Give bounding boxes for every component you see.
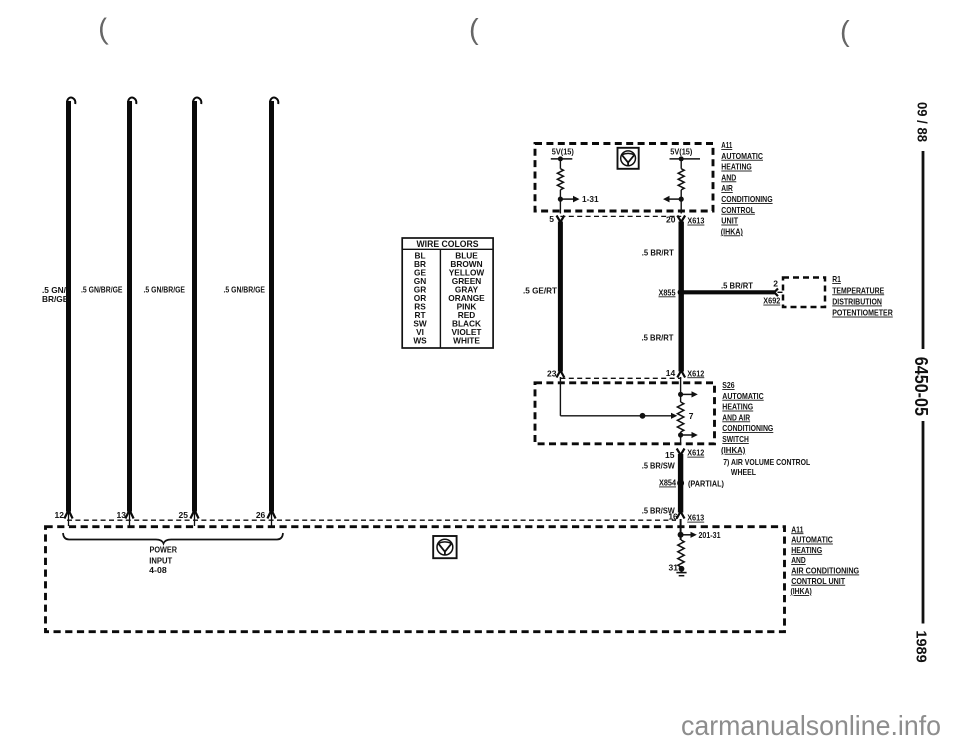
connector fork X692 (774, 289, 782, 297)
connector X854 label (659, 478, 676, 488)
svg-text:(IHKA): (IHKA) (791, 587, 813, 596)
svg-text:HEATING: HEATING (791, 546, 822, 555)
svg-text:201-31: 201-31 (699, 530, 721, 540)
margin label 6450-05 (rotated) (911, 357, 931, 416)
resistor (left branch, in A11) (557, 169, 563, 190)
svg-text:X612: X612 (687, 448, 704, 458)
svg-text:AND: AND (721, 173, 736, 182)
wire power input pin 25 (vertical .5 GN/BR/GE) (190, 98, 201, 526)
svg-text:AIR CONDITIONING: AIR CONDITIONING (791, 567, 859, 576)
svg-text:A11: A11 (791, 525, 804, 534)
wiper arrowhead into potentiometer (671, 413, 677, 419)
connector flare pin 23 (wire end) (557, 371, 565, 378)
wire .5 BR/RT horizontal to R1 (681, 290, 775, 294)
potentiometer resistor 7 (in S26) (677, 402, 683, 432)
value label .5 GE/RT (523, 285, 557, 295)
connector flare pin 15 (wire start) (677, 449, 685, 456)
svg-text:CONDITIONING: CONDITIONING (721, 195, 772, 204)
svg-text:TEMPERATURE: TEMPERATURE (832, 286, 884, 295)
svg-text:5V(15): 5V(15) (670, 148, 692, 157)
svg-text:23: 23 (547, 368, 557, 378)
resistor (in bottom A11) (678, 540, 684, 567)
svg-text:AUTOMATIC: AUTOMATIC (791, 536, 833, 545)
svg-text:2: 2 (773, 278, 778, 288)
wire .5 GE/RT vertical (pin 5 to S26 pin 23) (558, 222, 563, 372)
svg-text:25: 25 (179, 510, 189, 520)
svg-text:.5 GN/BR/GE: .5 GN/BR/GE (144, 285, 186, 295)
svg-text:(IHKA): (IHKA) (721, 227, 743, 236)
label POWER INPUT 4-08 (149, 544, 177, 575)
connector X612 label (lower) (687, 448, 704, 458)
pin 5 label (549, 214, 554, 224)
legend rows (413, 251, 485, 346)
svg-text:carmanualsonline.info: carmanualsonline.info (681, 710, 941, 741)
connector flare pin 14 (wire end) (677, 371, 685, 378)
svg-text:(: ( (840, 16, 850, 48)
wiper feed wire from pin 23 (560, 377, 671, 416)
value label .5 BR/RT (upper) (642, 247, 674, 257)
wire value label .5 GN/BR/GE (wire 25) (144, 285, 186, 295)
value label .5 BR/SW (upper) (642, 460, 675, 470)
S26 name block (721, 381, 773, 455)
page fold mark right (840, 16, 850, 48)
pin 20 label (666, 215, 676, 225)
wire power input pin 13 (vertical .5 GN/BR/GE) (125, 98, 136, 526)
pin 15 label (665, 450, 675, 460)
pin 12 label (55, 510, 65, 520)
ground symbol (676, 566, 686, 576)
svg-text:HEATING: HEATING (721, 163, 752, 172)
wire power input pin 12 (vertical .5 GN/BR/GE) (64, 98, 75, 526)
svg-text:WHEEL: WHEEL (731, 468, 756, 477)
svg-text:09 / 88: 09 / 88 (915, 102, 931, 142)
junction X854 dot (677, 480, 684, 487)
pin 23 label (547, 368, 557, 378)
svg-text:6450-05: 6450-05 (911, 357, 931, 416)
svg-text:HEATING: HEATING (722, 403, 753, 412)
svg-text:AND: AND (791, 556, 806, 565)
junction X855 dot (678, 289, 685, 296)
junction node + arrow to 201-31 (678, 532, 697, 538)
thin dashed connector line at A11 bottom entry (67, 519, 676, 521)
A11 bottom name block (791, 525, 860, 596)
svg-text:BR/GE: BR/GE (42, 294, 69, 304)
page fold mark center (469, 14, 479, 46)
junction node + tap arrow (top of track) (678, 391, 698, 397)
wire value label .5 GN/BR/GE (wire 26) (224, 285, 266, 295)
5V feed bar + junction dot (left branch) (551, 156, 573, 168)
page fold mark left (97, 14, 109, 47)
svg-text:20: 20 (666, 215, 676, 225)
pin 31 label (669, 563, 679, 573)
wire value label .5 GN/BR/GE (wire 13) (81, 285, 123, 295)
svg-text:(: ( (97, 14, 109, 47)
pin 26 label (256, 510, 266, 520)
value label 7 (689, 411, 694, 421)
net label 201-31 (699, 530, 721, 540)
svg-text:31: 31 (669, 563, 679, 573)
control unit A11 bottom dashed box (46, 527, 785, 632)
svg-text:7: 7 (689, 411, 694, 421)
junction dot on wiper wire (640, 413, 646, 419)
legend title WIRE COLORS (417, 239, 479, 249)
margin rule upper (922, 151, 925, 349)
svg-text:DISTRIBUTION: DISTRIBUTION (832, 298, 882, 307)
node 5V(15) label (right branch) (670, 148, 692, 157)
connector X855 label (659, 287, 676, 297)
switch S26 dashed box (535, 383, 715, 444)
svg-text:CONDITIONING: CONDITIONING (722, 424, 773, 433)
wire .5 BR/SW vertical (X612 to X613) (678, 454, 683, 513)
svg-text:14: 14 (666, 368, 676, 378)
note (PARTIAL) (688, 478, 724, 488)
pin 16 label (668, 512, 678, 522)
svg-text:AIR: AIR (721, 184, 733, 193)
connector X692 label (763, 296, 780, 306)
svg-text:26: 26 (256, 510, 266, 520)
svg-text:(IHKA): (IHKA) (721, 446, 746, 455)
svg-text:UNIT: UNIT (721, 217, 738, 226)
wire power input pin 26 (vertical .5 GN/BR/GE) (267, 98, 278, 526)
thin dashed connector line at S26 entry (560, 377, 681, 379)
svg-text:.5 GN/BR/GE: .5 GN/BR/GE (224, 285, 266, 295)
blower symbol inside bottom A11 (433, 536, 456, 558)
margin label 09/88 (rotated) (915, 102, 931, 142)
svg-text:WS: WS (413, 336, 427, 346)
svg-text:POTENTIOMETER: POTENTIOMETER (832, 309, 893, 318)
svg-text:X855: X855 (659, 287, 676, 297)
watermark carmanualsonline.info (681, 710, 941, 741)
pin 2 label (773, 278, 778, 288)
svg-text:5V(15): 5V(15) (552, 148, 574, 157)
svg-text:CONTROL UNIT: CONTROL UNIT (791, 577, 845, 586)
R1 name block (832, 275, 893, 317)
wire .5 BR/RT vertical (X613 to S26 pin 14) (679, 222, 684, 372)
blower symbol inside A11 (618, 148, 639, 169)
junction node + tap arrow (bottom of track) (678, 432, 698, 444)
svg-text:X613: X613 (687, 513, 704, 523)
svg-text:.5 BR/RT: .5 BR/RT (721, 281, 753, 291)
potentiometer track wire from pin 14 (680, 377, 682, 402)
svg-text:7) AIR VOLUME CONTROL: 7) AIR VOLUME CONTROL (723, 458, 810, 467)
svg-text:12: 12 (55, 510, 65, 520)
svg-text:.5 GN/BR/GE: .5 GN/BR/GE (81, 285, 123, 295)
svg-text:POWER: POWER (150, 544, 178, 554)
thin dashed connector line under A11 (5 to 20) (560, 215, 681, 217)
svg-text:SWITCH: SWITCH (722, 435, 749, 444)
svg-text:.5 BR/SW: .5 BR/SW (642, 460, 675, 470)
node 5V(15) label (left branch) (552, 148, 574, 157)
5V feed bar + junction dot (right branch) (670, 156, 701, 168)
pin 14 label (666, 368, 676, 378)
margin rule lower (922, 421, 925, 624)
control unit A11 top dashed box (535, 144, 713, 212)
connector flare pin 5 (557, 216, 565, 223)
svg-text:X854: X854 (659, 478, 676, 488)
connector flare pin 16 (wire end) (677, 512, 685, 519)
svg-text:15: 15 (665, 450, 675, 460)
svg-text:CONTROL: CONTROL (721, 206, 755, 215)
svg-text:R1: R1 (832, 275, 841, 284)
svg-text:AUTOMATIC: AUTOMATIC (721, 152, 763, 161)
svg-text:AND AIR: AND AIR (722, 413, 750, 422)
svg-text:.5 GE/RT: .5 GE/RT (523, 285, 557, 295)
svg-text:WHITE: WHITE (453, 336, 480, 346)
pin 13 label (117, 510, 127, 520)
connector X613 label (bottom) (687, 513, 704, 523)
svg-text:1989: 1989 (913, 630, 930, 662)
resistor (right branch, in A11) (678, 169, 684, 190)
note 7) AIR VOLUME CONTROL (723, 458, 810, 477)
svg-text:5: 5 (549, 214, 554, 224)
A11 top name block (721, 141, 773, 236)
brace POWER INPUT (63, 533, 283, 544)
connector X612 label (upper) (687, 368, 704, 378)
wire into A11 from X613 (680, 519, 682, 540)
potentiometer R1 dashed box (783, 278, 825, 308)
svg-text:X692: X692 (763, 296, 780, 306)
value label .5 BR/RT (horizontal) (721, 281, 753, 291)
svg-text:AUTOMATIC: AUTOMATIC (722, 392, 763, 401)
value label .5 BR/SW (lower) (642, 505, 675, 515)
wire + junction node to 1-31 (558, 190, 580, 214)
connector X613 label (top) (687, 216, 704, 226)
svg-text:4-08: 4-08 (149, 565, 167, 575)
svg-text:.5 BR/RT: .5 BR/RT (642, 247, 674, 257)
svg-text:13: 13 (117, 510, 127, 520)
wire colors legend table (402, 238, 493, 348)
svg-text:1-31: 1-31 (582, 194, 599, 204)
svg-text:S26: S26 (722, 381, 735, 390)
svg-text:(: ( (469, 14, 479, 46)
wire value label .5 GN/BR/GE (wire 12, two lines) (42, 285, 69, 304)
wire + junction node with left arrow (663, 190, 684, 214)
net label 1-31 (582, 194, 599, 204)
connector flare pin 20 (677, 216, 685, 223)
svg-text:X613: X613 (687, 216, 704, 226)
svg-text:(PARTIAL): (PARTIAL) (688, 478, 724, 488)
svg-text:WIRE COLORS: WIRE COLORS (417, 239, 479, 249)
value label .5 BR/RT (lower) (642, 332, 674, 342)
pin 25 label (179, 510, 189, 520)
svg-text:A11: A11 (721, 141, 732, 150)
svg-text:.5 BR/RT: .5 BR/RT (642, 332, 674, 342)
margin label 1989 (rotated) (913, 630, 930, 662)
svg-text:X612: X612 (687, 368, 704, 378)
